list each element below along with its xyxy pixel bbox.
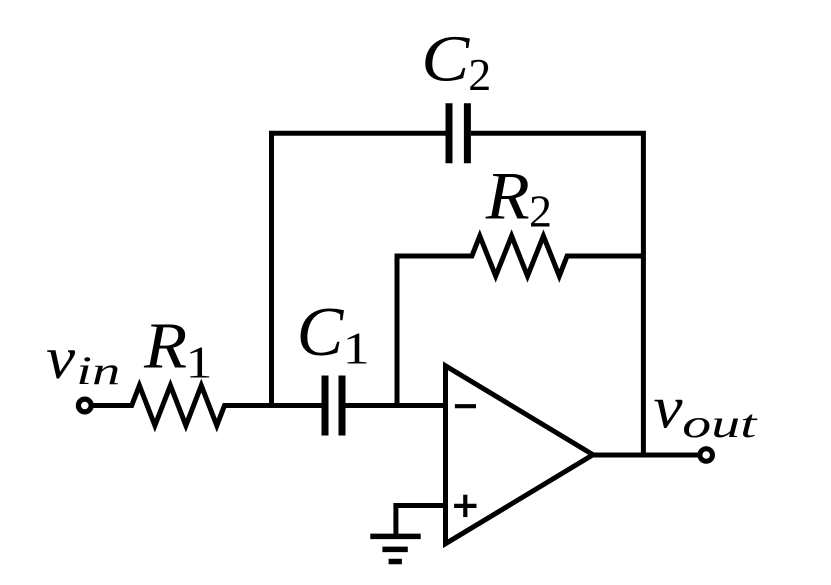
svg-text:C: C (297, 294, 345, 371)
svg-text:v: v (654, 374, 683, 440)
svg-text:1: 1 (186, 337, 213, 388)
svg-text:1: 1 (343, 323, 370, 374)
svg-text:R: R (143, 310, 187, 383)
svg-text:2: 2 (468, 49, 491, 100)
svg-text:R: R (485, 157, 530, 233)
svg-text:2: 2 (529, 186, 552, 237)
svg-text:C: C (421, 22, 470, 95)
svg-text:out: out (682, 401, 757, 446)
svg-text:in: in (76, 348, 120, 393)
svg-text:v: v (46, 325, 75, 391)
